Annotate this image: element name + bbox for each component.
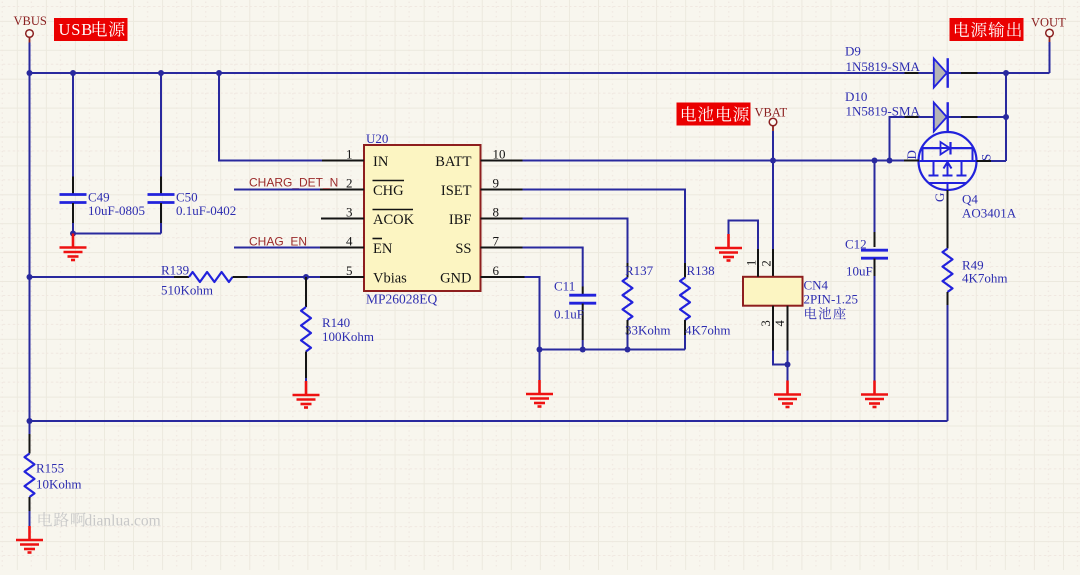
capacitor C11 [523, 248, 597, 350]
pin Q4 S [977, 160, 992, 162]
wire S net [991, 160, 1006, 162]
svg-text:U20: U20 [366, 131, 388, 146]
pin 2 CHG [320, 176, 404, 200]
node C12 junction [872, 158, 878, 164]
svg-text:S: S [979, 154, 994, 161]
svg-text:VBUS: VBUS [14, 14, 47, 28]
wire C50 to C49 ground node [73, 233, 161, 235]
svg-text:1N5819-SMA: 1N5819-SMA [846, 104, 921, 119]
node Vbias R140 junction [303, 274, 309, 280]
pin CN4-4 [773, 306, 788, 381]
wire S vertical [1005, 73, 1007, 161]
svg-text:1N5819-SMA: 1N5819-SMA [846, 59, 921, 74]
ground CN4 pin4 [774, 381, 801, 408]
svg-text:33Kohm: 33Kohm [625, 323, 671, 338]
transistor Q4 AO3401A [904, 132, 1017, 221]
connector CN4 body [743, 277, 858, 307]
svg-text:7: 7 [493, 234, 500, 249]
ground CN4 pin1 [715, 234, 742, 261]
diode D9 1N5819 [845, 44, 1050, 88]
svg-text:BATT: BATT [435, 154, 471, 170]
svg-text:4K7ohm: 4K7ohm [962, 271, 1008, 286]
pin 7 SS [455, 234, 522, 258]
node GND bus junctions [537, 347, 631, 353]
svg-text:ISET: ISET [441, 183, 472, 199]
wire IN net from top bus [219, 73, 322, 161]
svg-text:Vbias: Vbias [373, 271, 407, 287]
svg-text:CHARG_DET_N: CHARG_DET_N [249, 176, 338, 190]
node bottom bus junction [27, 418, 33, 424]
pin 3 ACOK [321, 205, 415, 229]
resistor R155 [25, 434, 82, 526]
svg-text:Q4: Q4 [962, 192, 978, 207]
diode D10 1N5819 [845, 89, 1006, 161]
svg-text:G: G [932, 193, 947, 202]
wire CHG net [234, 189, 320, 191]
svg-text:2: 2 [760, 260, 774, 266]
wire VOUT drop [1049, 37, 1051, 42]
wire bottom GND bus [540, 349, 686, 351]
wire GND net pin6 [525, 277, 540, 350]
capacitor C50 [148, 73, 237, 234]
svg-text:CHAG_EN: CHAG_EN [249, 235, 307, 249]
wire VBAT drop [772, 126, 774, 131]
wire D net [890, 160, 905, 162]
svg-text:R139: R139 [161, 263, 189, 278]
node D10 junction [1003, 114, 1009, 120]
port VBAT [755, 106, 788, 126]
svg-text:0.1uF-0402: 0.1uF-0402 [176, 203, 236, 218]
svg-text:GND: GND [440, 271, 471, 287]
resistor R138 [523, 190, 731, 350]
wire top bus VBUS net [30, 72, 905, 74]
svg-text:5: 5 [346, 263, 353, 278]
svg-text:AO3401A: AO3401A [962, 206, 1017, 221]
svg-text:D10: D10 [845, 89, 867, 104]
op-amp U1 IC U20 MP26028EQ body [364, 131, 481, 307]
pin 9 ISET [441, 176, 523, 200]
svg-text:4: 4 [773, 320, 787, 327]
pin 5 Vbias [320, 263, 407, 287]
resistor R49 [943, 190, 1008, 421]
wire VBUS vertical [29, 73, 31, 434]
svg-text:10Kohm: 10Kohm [36, 477, 82, 492]
svg-text:C12: C12 [845, 237, 867, 252]
pin 8 IBF [449, 205, 523, 229]
node VBAT junction [770, 158, 776, 164]
svg-text:dianlua.com: dianlua.com [85, 513, 161, 530]
svg-text:ACOK: ACOK [373, 212, 415, 228]
capacitor C12 [845, 161, 888, 381]
ground under C12 [861, 381, 888, 408]
svg-text:10: 10 [493, 147, 506, 162]
port VOUT [1031, 16, 1066, 37]
svg-text:C11: C11 [554, 279, 575, 294]
svg-text:CN4: CN4 [804, 278, 829, 293]
svg-text:4K7ohm: 4K7ohm [685, 323, 731, 338]
node D9 junction [1003, 70, 1009, 76]
svg-text:6: 6 [493, 263, 500, 278]
svg-text:R138: R138 [687, 263, 715, 278]
svg-text:510Kohm: 510Kohm [161, 283, 213, 298]
wire bottom G net bus [30, 420, 948, 422]
svg-text:VBAT: VBAT [755, 106, 788, 120]
svg-text:0.1uF: 0.1uF [554, 307, 584, 322]
wire GND stem [539, 350, 541, 381]
resistor R137 [523, 219, 671, 350]
pin Q4 D [904, 160, 919, 162]
ground under C49 [60, 234, 87, 261]
label USB电源 [54, 18, 128, 41]
svg-text:R140: R140 [322, 315, 350, 330]
pin 10 BATT [435, 147, 522, 171]
svg-text:VOUT: VOUT [1031, 16, 1066, 30]
pin 6 GND [440, 263, 524, 287]
label 电池电源 [677, 103, 751, 126]
pin 1 IN [322, 147, 389, 171]
svg-text:3: 3 [759, 320, 773, 326]
svg-text:3: 3 [346, 205, 353, 220]
capacitor C49 [60, 73, 146, 234]
svg-text:10uF: 10uF [846, 264, 873, 279]
svg-text:IBF: IBF [449, 212, 472, 228]
svg-text:R155: R155 [36, 461, 64, 476]
svg-text:10uF-0805: 10uF-0805 [88, 203, 145, 218]
node CN4 ground junction [785, 362, 791, 368]
ground GND node [526, 380, 553, 407]
svg-text:1: 1 [745, 260, 759, 266]
svg-text:SS: SS [455, 241, 471, 257]
label 电池座 [805, 307, 816, 319]
svg-text:2PIN-1.25: 2PIN-1.25 [804, 292, 859, 307]
svg-text:1: 1 [346, 147, 353, 162]
wire BATT net [523, 160, 905, 162]
wire CN4 pin2 VBAT [772, 161, 774, 250]
node top bus junctions [27, 70, 223, 76]
wire EN net [234, 247, 320, 249]
ground under R140 [293, 381, 320, 408]
svg-text:IN: IN [373, 154, 389, 170]
svg-text:2: 2 [346, 176, 353, 191]
watermark dianlua [39, 512, 161, 529]
svg-text:9: 9 [493, 176, 500, 191]
node C49 ground junction [70, 231, 76, 237]
node D10 drop junction [887, 158, 893, 164]
svg-text:MP26028EQ: MP26028EQ [366, 292, 438, 307]
svg-text:USB: USB [59, 20, 94, 39]
svg-text:CHG: CHG [373, 183, 404, 199]
svg-text:D9: D9 [845, 44, 861, 59]
svg-text:R137: R137 [625, 263, 654, 278]
ground under R155 [16, 526, 43, 553]
svg-text:EN: EN [373, 241, 393, 257]
resistor R140 [301, 277, 374, 382]
port VBUS [14, 14, 47, 37]
svg-text:100Kohm: 100Kohm [322, 329, 374, 344]
wire VBUS drop [29, 37, 31, 42]
pin CN4-1 [729, 221, 759, 277]
label 电源输出 [950, 18, 1024, 41]
pin CN4-3 [759, 306, 788, 365]
svg-text:4: 4 [346, 234, 353, 249]
svg-text:8: 8 [493, 205, 500, 220]
node R139 left junction [27, 274, 33, 280]
pin 4 EN [320, 234, 393, 258]
resistor R139 [30, 263, 321, 298]
svg-text:D: D [904, 150, 919, 159]
